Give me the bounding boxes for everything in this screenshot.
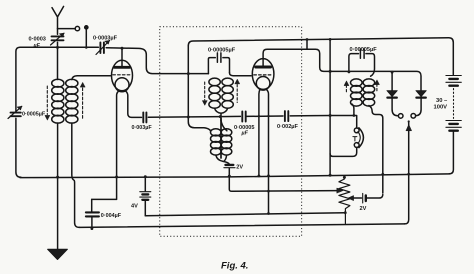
dotted screening box around detector stage <box>160 27 302 237</box>
wire (T1 winding bottoms merge to stem) <box>215 108 228 120</box>
coil L1 (tapped aerial variometer) left winding <box>52 79 64 123</box>
svg-text:0·0005µF: 0·0005µF <box>22 111 46 117</box>
wire (reaction vertical from HT top wire to LT bus) <box>329 39 331 175</box>
svg-text:30 –: 30 – <box>436 98 448 104</box>
svg-text:4V: 4V <box>131 204 138 210</box>
wire (bus3: 4V negative to rheostat foot) <box>145 213 345 216</box>
wire (antenna lead below C1) <box>57 42 59 47</box>
variometer arrow right (T3) <box>376 84 378 93</box>
filament of V1 <box>115 78 129 92</box>
transformer T1 right winding <box>222 78 233 108</box>
svg-text:µF: µF <box>241 131 249 137</box>
wire (phones bottom back to reaction vertical) <box>330 148 357 157</box>
svg-text:µF: µF <box>33 43 41 49</box>
wire (L1 secondary top to V1 grid) <box>72 76 111 80</box>
wire (antenna lead into L1 top) <box>57 47 59 79</box>
transformer T2 right winding <box>221 129 232 155</box>
phones P (telephone receiver) <box>354 128 359 133</box>
wire (T3 secondary bottom to filament vertical) <box>369 106 383 194</box>
triode V1 <box>112 60 133 90</box>
svg-text:2V: 2V <box>360 206 367 212</box>
wire (V1 anode lead) <box>121 48 123 66</box>
wire (V1 filament left leg to LT bus and C5 tap) <box>92 91 120 200</box>
svg-text:0·002µF: 0·002µF <box>277 124 299 130</box>
crystal diode D2 <box>416 91 426 97</box>
wire (L1 right bottom down to LT bus, jog, to bottom return) <box>72 123 80 227</box>
capacitor C5 0.004uF (bypass) <box>91 199 93 211</box>
wire (left rail lower half) <box>16 118 21 177</box>
svg-text:0·00005µF: 0·00005µF <box>350 47 378 53</box>
left shunt rail with C3 <box>16 47 20 111</box>
wire (B2 to LT bus and on to rheostat arrow) <box>229 168 337 191</box>
wire (L1 left bottom down to earth) <box>57 123 59 249</box>
wire (node B vertical: HT feed / V1 anode junction down to T2 primary) <box>188 46 210 131</box>
crystal diode D1 <box>391 72 393 90</box>
capacitor C9 0.00005uF across T3 primary <box>349 49 375 76</box>
plug arrow <box>406 125 412 131</box>
wire (switch to grid bus) <box>85 29 87 47</box>
rheostat R1 (potentiometer) <box>339 177 350 223</box>
variable capacitor C2 0.0003uF (series grid) <box>100 43 104 54</box>
variometer arrow left (T1) <box>204 82 206 100</box>
variable capacitor C1 0.0003uF (aerial series) <box>52 36 64 40</box>
cell B2 2V (grid bias) <box>226 164 234 166</box>
wire (HT stub down to V2 anode lead) <box>306 40 308 49</box>
cell B3 2V (detector bias) <box>362 193 364 203</box>
wire (V2 anode up and across to detector) <box>263 49 421 90</box>
wire (V1 filament right leg to C4) <box>125 91 142 118</box>
wire (battery negative down to LT bus corner) <box>449 132 453 174</box>
wire (coupling line C7/C8 row continues to reaction vertical) <box>246 115 330 118</box>
variable capacitor C3 0.0005uF (tuning) <box>11 113 21 117</box>
wire (T3 primary bottom into phones lead) <box>352 104 354 116</box>
capacitor C4 0.003uF (grid condenser) <box>143 112 146 122</box>
capacitor C6 0.00005uF across T1 primary <box>208 53 229 74</box>
wire (bottom return bus) <box>80 224 405 228</box>
grid of V2 <box>254 74 272 76</box>
capacitor C7 0.00005uF (coupling) <box>242 112 245 122</box>
transformer T1 left winding <box>209 78 220 108</box>
wiper arrow 1 into rheostat <box>337 188 343 193</box>
wire (phones top lead) <box>330 116 357 128</box>
wire (top HT lead to battery +) <box>188 38 453 75</box>
transformer T3 left winding <box>351 79 363 106</box>
svg-text:0·0003µF: 0·0003µF <box>93 36 118 42</box>
antenna A <box>52 6 64 34</box>
coil L1 right winding <box>66 79 78 123</box>
battery B1 4V (filament) <box>144 177 146 191</box>
svg-text:0·004µF: 0·004µF <box>101 213 122 219</box>
anode of V1 <box>115 66 130 69</box>
core of T2 <box>220 119 222 159</box>
wire (T2 winding bottoms merge to cell) <box>216 155 230 164</box>
wire (bus from C2 to corner, down, to node B) <box>106 48 186 74</box>
wire (stem splits to T2 secondary top) <box>221 120 227 130</box>
svg-text:0·0003: 0·0003 <box>29 37 46 43</box>
svg-text:0·003µF: 0·003µF <box>132 125 153 131</box>
triode V2 <box>252 59 274 90</box>
transformer T3 right winding <box>363 79 375 106</box>
svg-text:Fig. 4.: Fig. 4. <box>221 261 248 272</box>
variometer arrow left (L1) <box>46 86 48 115</box>
variometer arrow right (T1) <box>236 85 238 103</box>
variometer arrow right (L1) <box>82 88 84 119</box>
switch S1 (aerial shorting switch) <box>58 28 76 30</box>
wire (C4 to node B vertical and on to transformer stem) <box>148 116 220 119</box>
capacitor C8 0.002uF <box>285 111 288 121</box>
variometer arrow left (T3) <box>345 85 347 94</box>
filament of V2 <box>256 77 270 91</box>
wire (top grid bus) <box>20 46 98 48</box>
svg-text:2V: 2V <box>236 164 243 170</box>
wire (V2 filament left leg to LT bus) <box>259 89 260 176</box>
battery B4 HT 30-100V <box>446 75 461 77</box>
svg-text:100V: 100V <box>434 105 448 111</box>
wiper arrow 2 into rheostat <box>353 197 362 199</box>
anode of V2 <box>256 66 271 69</box>
wire (node B to T1 primary top) <box>188 73 208 75</box>
wire (T1 secondary top to V2 grid) <box>230 73 252 76</box>
wire (jack plug stem down to bottom return) <box>405 122 409 224</box>
ground (earth) <box>48 249 68 259</box>
wire (V2 filament right leg down to bus3) <box>266 89 268 213</box>
svg-text:0·00005µF: 0·00005µF <box>208 47 236 53</box>
grid of V1 <box>113 74 131 76</box>
wire (LT bus 1 full width) <box>20 174 450 178</box>
transformer T2 left winding <box>211 129 222 155</box>
